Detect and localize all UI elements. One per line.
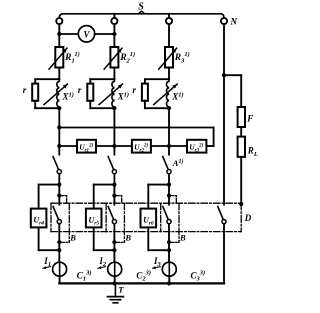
wire: column 2 stub above upper switch xyxy=(113,146,115,155)
node: dot above bottom bar column 3 xyxy=(167,240,171,244)
relay Ur3 2) (box) xyxy=(187,140,206,153)
node: junction column 2 / relay row xyxy=(112,144,116,148)
wire: into current source I3 xyxy=(168,250,170,262)
wire: top bar of r/X parallel group, column 3 xyxy=(145,78,169,80)
wire: current source I1 to bottom bus xyxy=(59,276,61,283)
node: junction col2 / voltmeter line xyxy=(112,32,116,36)
node: junction col3 / bottom bus xyxy=(167,281,171,285)
switch (upper, column 1) contact circle xyxy=(57,170,61,174)
node: bottom of r/X group column 2 xyxy=(112,106,116,110)
load resistor RL (box) xyxy=(238,137,245,157)
wire: bottom bar of lower group column 1 xyxy=(39,249,60,251)
relay Ur1 2) (box) xyxy=(77,140,96,153)
wire: column 2 to ganged switch xyxy=(113,185,115,205)
wire: column 1 into resistor R1 xyxy=(58,34,60,47)
node: top of lower parallel group column 3 xyxy=(167,183,171,187)
linkage frame B: upper dash-dot line xyxy=(51,202,241,204)
switch (ganged, N column) contact circle xyxy=(222,220,226,224)
wire: relay row segment into Ur2 xyxy=(114,145,131,147)
wire: RL down to node D xyxy=(240,157,242,204)
voltmeter V (circle instrument) xyxy=(78,26,94,42)
wire: N column below switch to bottom bus xyxy=(223,224,225,284)
wire: load branch down to fuse F xyxy=(240,75,242,107)
wire: below upper switch column 2 xyxy=(113,174,115,185)
wire: into current source I2 xyxy=(113,250,115,262)
linkage jog from switch pivot, column 1 xyxy=(60,196,67,204)
switch (ganged, column 1) contact circle xyxy=(57,220,61,224)
wire: line through current source I1 xyxy=(59,262,61,276)
svg-text:X1): X1) xyxy=(171,92,183,102)
svg-text:X1): X1) xyxy=(117,92,129,102)
wire: relay row segment into Ur1 xyxy=(59,145,77,147)
linkage jog from switch pivot, column 2 xyxy=(115,196,122,204)
wire: relay row segment out of Ur2 xyxy=(151,145,169,147)
wire: branch down into Ur5 xyxy=(93,185,95,209)
wire: Ur4 to bottom bar xyxy=(38,227,40,250)
wire: below upper switch column 3 xyxy=(168,174,170,185)
linkage box B left edge, column 3 xyxy=(160,203,162,231)
wire: return line drop on right xyxy=(213,128,215,147)
node: junction bottom bar column 3 xyxy=(167,248,171,252)
wire: column 2 down to relay row xyxy=(113,108,115,146)
linkage box B right edge, column 2 xyxy=(123,203,125,242)
svg-text:r: r xyxy=(133,85,137,95)
node: bottom of r/X group column 1 xyxy=(57,106,61,110)
node: pivot dot on column 3 xyxy=(167,194,171,198)
wire: below ganged switch column 1 xyxy=(58,224,60,250)
linkage frame right edge to node D xyxy=(240,203,242,231)
linkage box B left edge, column 1 xyxy=(50,203,52,231)
terminal (open circle), phase column 2 xyxy=(113,14,115,18)
wire: left branch down to resistor r, column 3 xyxy=(144,79,146,83)
wire: column 2 into resistor R2 xyxy=(113,34,115,47)
terminal (open circle), phase column 3 xyxy=(168,14,170,18)
svg-text:T: T xyxy=(118,285,124,295)
inductor X (variable reactor), column 3 xyxy=(167,79,169,108)
node: top of lower parallel group column 2 xyxy=(112,183,116,187)
wire: left branch down to resistor r, column 2 xyxy=(89,79,91,83)
linkage stub to lower dot, column 3 xyxy=(170,241,179,243)
wire: top bus S with notch, from phase terminal 1 to terminal N xyxy=(59,14,224,18)
svg-text:C33): C33) xyxy=(191,270,206,283)
node: junction column 3 / relay row xyxy=(167,144,171,148)
wire: r to bottom bar, column 3 xyxy=(144,101,146,108)
linkage jog from switch pivot, column 3 xyxy=(170,196,177,204)
wire: voltmeter horizontal left segment xyxy=(59,33,78,35)
wire: R1 to r/X group column 1 xyxy=(58,68,60,80)
wire: long return line from column 1 to right side (crosses col2,col3) xyxy=(59,127,213,129)
wire: below ganged switch column 3 xyxy=(168,224,170,250)
svg-text:R21): R21) xyxy=(119,51,135,65)
svg-text:X1): X1) xyxy=(62,92,74,102)
svg-text:F: F xyxy=(246,114,253,124)
switch (ganged, N column) blade xyxy=(218,207,223,220)
switch (upper, column 2) blade xyxy=(108,157,113,170)
relay Ur5 (box) xyxy=(86,209,102,228)
wire: bottom bar of lower group column 2 xyxy=(94,249,115,251)
svg-text:A1): A1) xyxy=(172,158,184,168)
wire: column 3 to ganged switch xyxy=(168,185,170,205)
current source I3 (circle) xyxy=(162,262,176,276)
wire: column 1 stub above upper switch xyxy=(58,146,60,155)
node: pivot dot on column 1 xyxy=(57,194,61,198)
resistor r (column 2) xyxy=(87,84,93,101)
wire: voltmeter tap from column 1 xyxy=(58,24,60,34)
svg-text:B: B xyxy=(179,232,186,242)
wire: Ur6 to bottom bar xyxy=(147,227,149,250)
wire: r to bottom bar, column 1 xyxy=(34,101,36,108)
node: start of return wire on column 1 xyxy=(57,125,61,129)
relay Ur2 2) (box) xyxy=(132,140,151,153)
wire: left branch down to resistor r, column 1 xyxy=(34,79,36,83)
wire: bottom bar of r/X parallel group, column 1 xyxy=(35,107,59,109)
resistor R2 (adjustable) xyxy=(110,47,118,68)
wire: column 3 into resistor R3 xyxy=(168,24,170,47)
wire: relay row segment out of Ur1 xyxy=(96,145,114,147)
switch (ganged, column 2) blade xyxy=(108,207,113,220)
wire: top bar of lower group column 3 xyxy=(148,184,169,186)
fuse F (box) xyxy=(238,107,245,127)
wire: column 1 down to relay row xyxy=(58,108,60,146)
wire: branch down into Ur6 xyxy=(147,185,149,209)
node D xyxy=(239,202,243,206)
terminal (open circle), phase column 1 xyxy=(56,18,62,24)
svg-text:N: N xyxy=(230,17,238,27)
node: junction column 1 / relay row xyxy=(57,144,61,148)
linkage box B right edge, column 1 xyxy=(68,203,70,242)
switch (ganged, column 3) blade xyxy=(163,207,168,220)
resistor r (column 3) xyxy=(142,84,148,101)
wire: bottom bar of r/X parallel group, column 3 xyxy=(145,107,169,109)
node: dot above bottom bar column 2 xyxy=(112,240,116,244)
node: dot above bottom bar column 1 xyxy=(57,240,61,244)
wire: line through current source I3 xyxy=(168,262,170,276)
wire: Ur5 to bottom bar xyxy=(93,227,95,250)
wire: top bar of lower group column 2 xyxy=(94,184,115,186)
wire: return line into Ur3 right terminal xyxy=(206,145,213,147)
wire: column 3 stub above upper switch xyxy=(168,146,170,155)
node: junction col1 / voltmeter line xyxy=(57,32,61,36)
wire: column 1 to ganged switch xyxy=(58,185,60,205)
wire: relay row segment into Ur3 xyxy=(169,145,187,147)
wire: bottom bus T xyxy=(59,282,224,284)
svg-text:S: S xyxy=(138,2,144,13)
wire: N column down to its switch xyxy=(223,75,225,204)
switch (ganged, column 1) blade xyxy=(53,207,58,220)
wire: top bar of r/X parallel group, column 1 xyxy=(35,78,59,80)
wire: branch down into Ur4 xyxy=(38,185,40,209)
wire: top bar of r/X parallel group, column 2 xyxy=(90,78,114,80)
wire: voltmeter horizontal right segment xyxy=(95,33,115,35)
svg-text:V: V xyxy=(83,29,90,39)
wire: top bar of lower group column 1 xyxy=(39,184,60,186)
svg-text:R11): R11) xyxy=(64,51,80,65)
wire: load branch horizontal xyxy=(224,74,241,76)
linkage box B left edge, column 2 xyxy=(105,203,107,231)
node: pivot dot on column 2 xyxy=(112,194,116,198)
linkage stub to lower dot, column 2 xyxy=(115,241,124,243)
linkage frame B: lower dash-dot line xyxy=(51,231,241,233)
inductor X (variable reactor), column 1 xyxy=(57,79,59,108)
svg-text:RL: RL xyxy=(247,146,258,158)
switch (upper, column 3) contact circle xyxy=(167,170,171,174)
svg-text:B: B xyxy=(69,232,76,242)
switch (upper, column 2) contact circle xyxy=(112,170,116,174)
switch (upper, column 1) blade xyxy=(53,157,58,170)
relay Ur4 (box) xyxy=(31,209,47,228)
svg-text:R31): R31) xyxy=(174,51,190,65)
node: junction bottom bar column 2 xyxy=(112,248,116,252)
wire: N column upper segment xyxy=(223,24,225,75)
wire: current source I2 to bottom bus xyxy=(114,276,116,283)
inductor X (variable reactor), column 2 xyxy=(112,79,114,108)
resistor R3 (adjustable) xyxy=(165,47,173,68)
wire: below ganged switch column 2 xyxy=(113,224,115,250)
wire: column 3 down to relay row xyxy=(168,108,170,146)
switch (ganged, column 2) contact circle xyxy=(112,220,116,224)
wire: line through current source I2 xyxy=(114,262,116,276)
terminal N (open circle) xyxy=(221,18,227,24)
wire: R2 to r/X group column 2 xyxy=(113,68,115,80)
current source I2 (circle) xyxy=(108,262,122,276)
current source I1 (circle) xyxy=(53,262,67,276)
wire: below upper switch column 1 xyxy=(58,174,60,185)
resistor r (column 1) xyxy=(32,84,38,101)
node: bottom of r/X group column 3 xyxy=(167,106,171,110)
svg-text:B: B xyxy=(124,232,131,242)
wire: current source I3 to bottom bus xyxy=(168,276,170,283)
ground symbol (earth) at T xyxy=(114,283,116,296)
node: top of lower parallel group column 1 xyxy=(57,183,61,187)
svg-text:C23): C23) xyxy=(136,270,151,283)
resistor R1 (adjustable) xyxy=(55,47,63,68)
svg-text:r: r xyxy=(78,85,82,95)
wire: r to bottom bar, column 2 xyxy=(89,101,91,108)
wire: column 2 stub above junction xyxy=(113,24,115,34)
svg-text:C13): C13) xyxy=(77,270,92,283)
node: junction col2 / bottom bus xyxy=(112,281,116,285)
svg-text:r: r xyxy=(23,85,27,95)
wire: fuse F to load RL xyxy=(240,127,242,137)
switch (ganged, column 3) contact circle xyxy=(167,220,171,224)
wire: into current source I1 xyxy=(58,250,60,262)
wire: bottom bar of r/X parallel group, column 2 xyxy=(90,107,114,109)
linkage box B right edge, column 3 xyxy=(178,203,180,242)
relay Ur6 (box) xyxy=(141,209,157,228)
wire: bottom bar of lower group column 3 xyxy=(148,249,169,251)
node: junction N column / load branch xyxy=(222,73,226,77)
node: junction bottom bar column 1 xyxy=(57,248,61,252)
wire: R3 to r/X group column 3 xyxy=(168,68,170,80)
switch (upper, column 3) blade xyxy=(163,157,168,170)
linkage stub to lower dot, column 1 xyxy=(60,241,69,243)
svg-text:D: D xyxy=(244,213,252,223)
